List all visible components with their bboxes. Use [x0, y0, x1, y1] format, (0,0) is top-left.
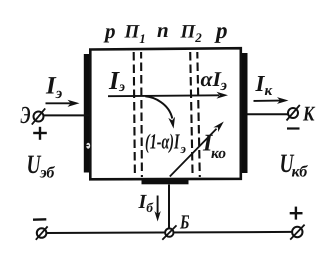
base terminal circle	[165, 228, 173, 236]
svg-text:П1: П1	[124, 22, 146, 47]
bottom right terminal circle	[292, 227, 302, 237]
collector terminal circle	[288, 108, 298, 118]
minus sign bottom left	[33, 218, 46, 221]
transistor body outline	[90, 48, 241, 179]
svg-text:Iб: Iб	[138, 191, 155, 215]
bottom left terminal circle	[37, 228, 47, 238]
junction P2 dashed line a	[190, 52, 192, 177]
base wire	[168, 185, 170, 229]
junction P1 dashed line a	[134, 52, 135, 177]
emitter electrode bar	[84, 54, 91, 173]
svg-text:Iк: Iк	[255, 71, 273, 99]
svg-text:эб: эб	[39, 165, 55, 182]
minus sign collector side	[287, 127, 300, 129]
arrow I_Э	[46, 102, 71, 104]
svg-text:p: p	[214, 18, 228, 43]
emitter terminal circle	[34, 112, 44, 122]
svg-text:n: n	[157, 18, 169, 42]
svg-text:p: p	[103, 19, 116, 43]
svg-text:αI: αI	[201, 67, 222, 91]
svg-text:Iэ: Iэ	[45, 72, 63, 102]
main current arrow	[108, 94, 219, 97]
plus sign emitter side	[33, 132, 47, 134]
junction P1 dashed line b	[140, 52, 143, 177]
base electrode bar	[142, 178, 189, 184]
svg-text:ко: ко	[211, 145, 226, 162]
arrow I_ко	[170, 129, 217, 177]
plus sign bottom right	[290, 212, 303, 214]
print speck on emitter bar	[86, 143, 90, 149]
junction P2 dashed line b	[197, 52, 200, 177]
svg-text:Б: Б	[179, 211, 189, 233]
svg-text:э: э	[220, 77, 228, 94]
svg-text:Э: Э	[21, 102, 31, 129]
arrow I_к	[254, 100, 281, 102]
collector wire	[248, 113, 289, 115]
svg-text:кб: кб	[292, 164, 309, 181]
svg-text:К: К	[302, 101, 316, 125]
svg-text:э: э	[180, 141, 187, 156]
recombination arrow	[145, 96, 172, 118]
emitter wire	[44, 114, 89, 116]
collector electrode bar	[241, 53, 247, 173]
svg-text:П2: П2	[180, 21, 203, 45]
bottom rail wire	[46, 232, 292, 233]
arrow I_б	[157, 196, 159, 215]
svg-text:(1-α)I: (1-α)I	[145, 130, 180, 154]
svg-text:Iэ: Iэ	[108, 66, 125, 95]
